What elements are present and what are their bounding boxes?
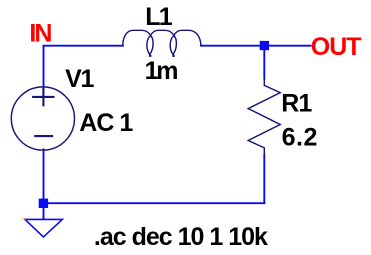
svg-text:AC 1: AC 1	[79, 109, 133, 137]
svg-text:L1: L1	[145, 3, 172, 31]
svg-text:V1: V1	[65, 65, 94, 93]
svg-text:.ac dec 10 1 10k: .ac dec 10 1 10k	[94, 223, 268, 251]
svg-text:1m: 1m	[145, 57, 178, 85]
svg-text:OUT: OUT	[311, 33, 362, 61]
svg-text:R1: R1	[281, 89, 312, 117]
svg-text:6.2: 6.2	[282, 123, 318, 151]
svg-text:IN: IN	[29, 19, 51, 47]
